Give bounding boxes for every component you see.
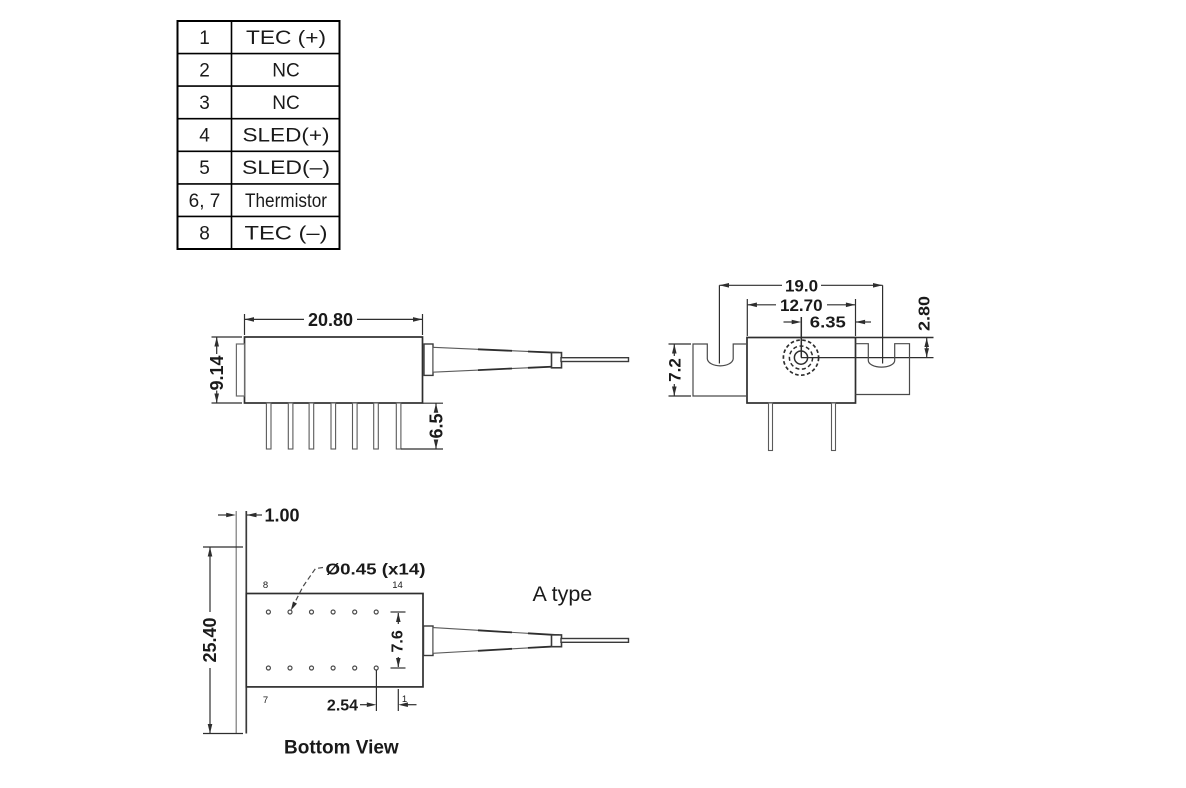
end view center line (800, 317, 802, 358)
dimension 1.00 (218, 514, 262, 516)
dimension 2.80 (926, 338, 928, 358)
svg-text:2.80: 2.80 (917, 296, 934, 331)
svg-text:1.00: 1.00 (265, 506, 300, 526)
end view fiber ferrule circles (783, 340, 818, 375)
side view left flange (236, 344, 244, 396)
dimension 2.54 (360, 670, 417, 711)
svg-text:3: 3 (199, 93, 210, 114)
bottom view fiber snout (424, 626, 434, 656)
svg-text:7.6: 7.6 (390, 630, 407, 652)
svg-text:20.80: 20.80 (308, 310, 353, 330)
svg-text:2: 2 (199, 61, 210, 82)
bottom view package body (246, 594, 423, 687)
svg-text:A type: A type (533, 582, 593, 606)
svg-text:6, 7: 6, 7 (189, 191, 221, 212)
svg-text:TEC (–): TEC (–) (245, 223, 328, 244)
svg-text:25.40: 25.40 (200, 617, 220, 662)
svg-text:19.0: 19.0 (785, 277, 818, 296)
end view body top edge extension line (856, 337, 934, 339)
svg-text:8: 8 (263, 580, 268, 591)
side view pins (7) (266, 403, 401, 449)
table row 1: pin 1 TEC (+) (199, 28, 326, 49)
bottom view fiber (561, 639, 629, 643)
table row 5: pin 5 SLED (-) (199, 158, 330, 179)
bottom view pin holes top row (266, 610, 378, 614)
end view right flange with mounting slot (856, 344, 910, 395)
svg-text:Thermistor: Thermistor (245, 191, 328, 212)
end view package body (747, 338, 856, 404)
pin function table (178, 21, 340, 249)
svg-text:Ø0.45 (x14): Ø0.45 (x14) (326, 562, 426, 579)
svg-text:6.35: 6.35 (810, 315, 846, 332)
svg-text:SLED(–): SLED(–) (242, 158, 330, 179)
dimension 6.35 (784, 321, 872, 323)
svg-text:NC: NC (272, 61, 299, 82)
svg-text:1: 1 (199, 28, 210, 49)
bottom view boot end collar (552, 635, 562, 647)
side view boot end collar (552, 353, 562, 368)
svg-text:5: 5 (199, 158, 210, 179)
end view pins (2) (769, 403, 836, 451)
svg-text:2.54: 2.54 (327, 698, 358, 715)
svg-text:TEC (+): TEC (+) (246, 28, 326, 49)
svg-text:NC: NC (272, 93, 299, 114)
dimension 19.0 (719, 285, 882, 363)
dimension 6.5 (401, 403, 443, 449)
end view fiber axis line (801, 357, 934, 359)
svg-text:9.14: 9.14 (207, 355, 227, 390)
dimension 7.6 (391, 612, 406, 668)
end view left flange with mounting slot (693, 344, 747, 396)
side view fiber snout (424, 344, 433, 375)
dimension 9.14 (212, 337, 243, 403)
table row 3: pin 3 NC (199, 93, 300, 114)
svg-text:Bottom View: Bottom View (284, 738, 399, 759)
svg-text:12.70: 12.70 (780, 296, 823, 315)
pin number labels 8, 14, 7, 1 (263, 580, 407, 706)
side view fiber (561, 358, 629, 362)
bottom view fiber boot (433, 628, 561, 654)
svg-text:14: 14 (392, 580, 403, 591)
svg-text:7: 7 (263, 695, 268, 706)
dimension 12.70 (747, 299, 855, 336)
table row 4: pin 4 SLED (+) (199, 126, 329, 147)
bottom view pin holes bottom row (266, 666, 378, 670)
svg-text:SLED(+): SLED(+) (243, 126, 330, 147)
svg-text:6.5: 6.5 (426, 413, 446, 438)
svg-text:7.2: 7.2 (665, 358, 684, 382)
side view fiber boot (433, 347, 561, 372)
dimension 7.2 (669, 344, 692, 396)
svg-text:4: 4 (199, 126, 210, 147)
table row 6: pins 6,7 Thermistor (189, 191, 328, 212)
table row 7: pin 8 TEC (-) (199, 223, 327, 244)
svg-text:8: 8 (199, 223, 210, 244)
side view package body (245, 337, 423, 403)
table row 2: pin 2 NC (199, 61, 300, 82)
bottom view flange bar (236, 511, 246, 734)
dimension 25.40 (203, 547, 243, 734)
dimension 20.80 (245, 314, 423, 335)
